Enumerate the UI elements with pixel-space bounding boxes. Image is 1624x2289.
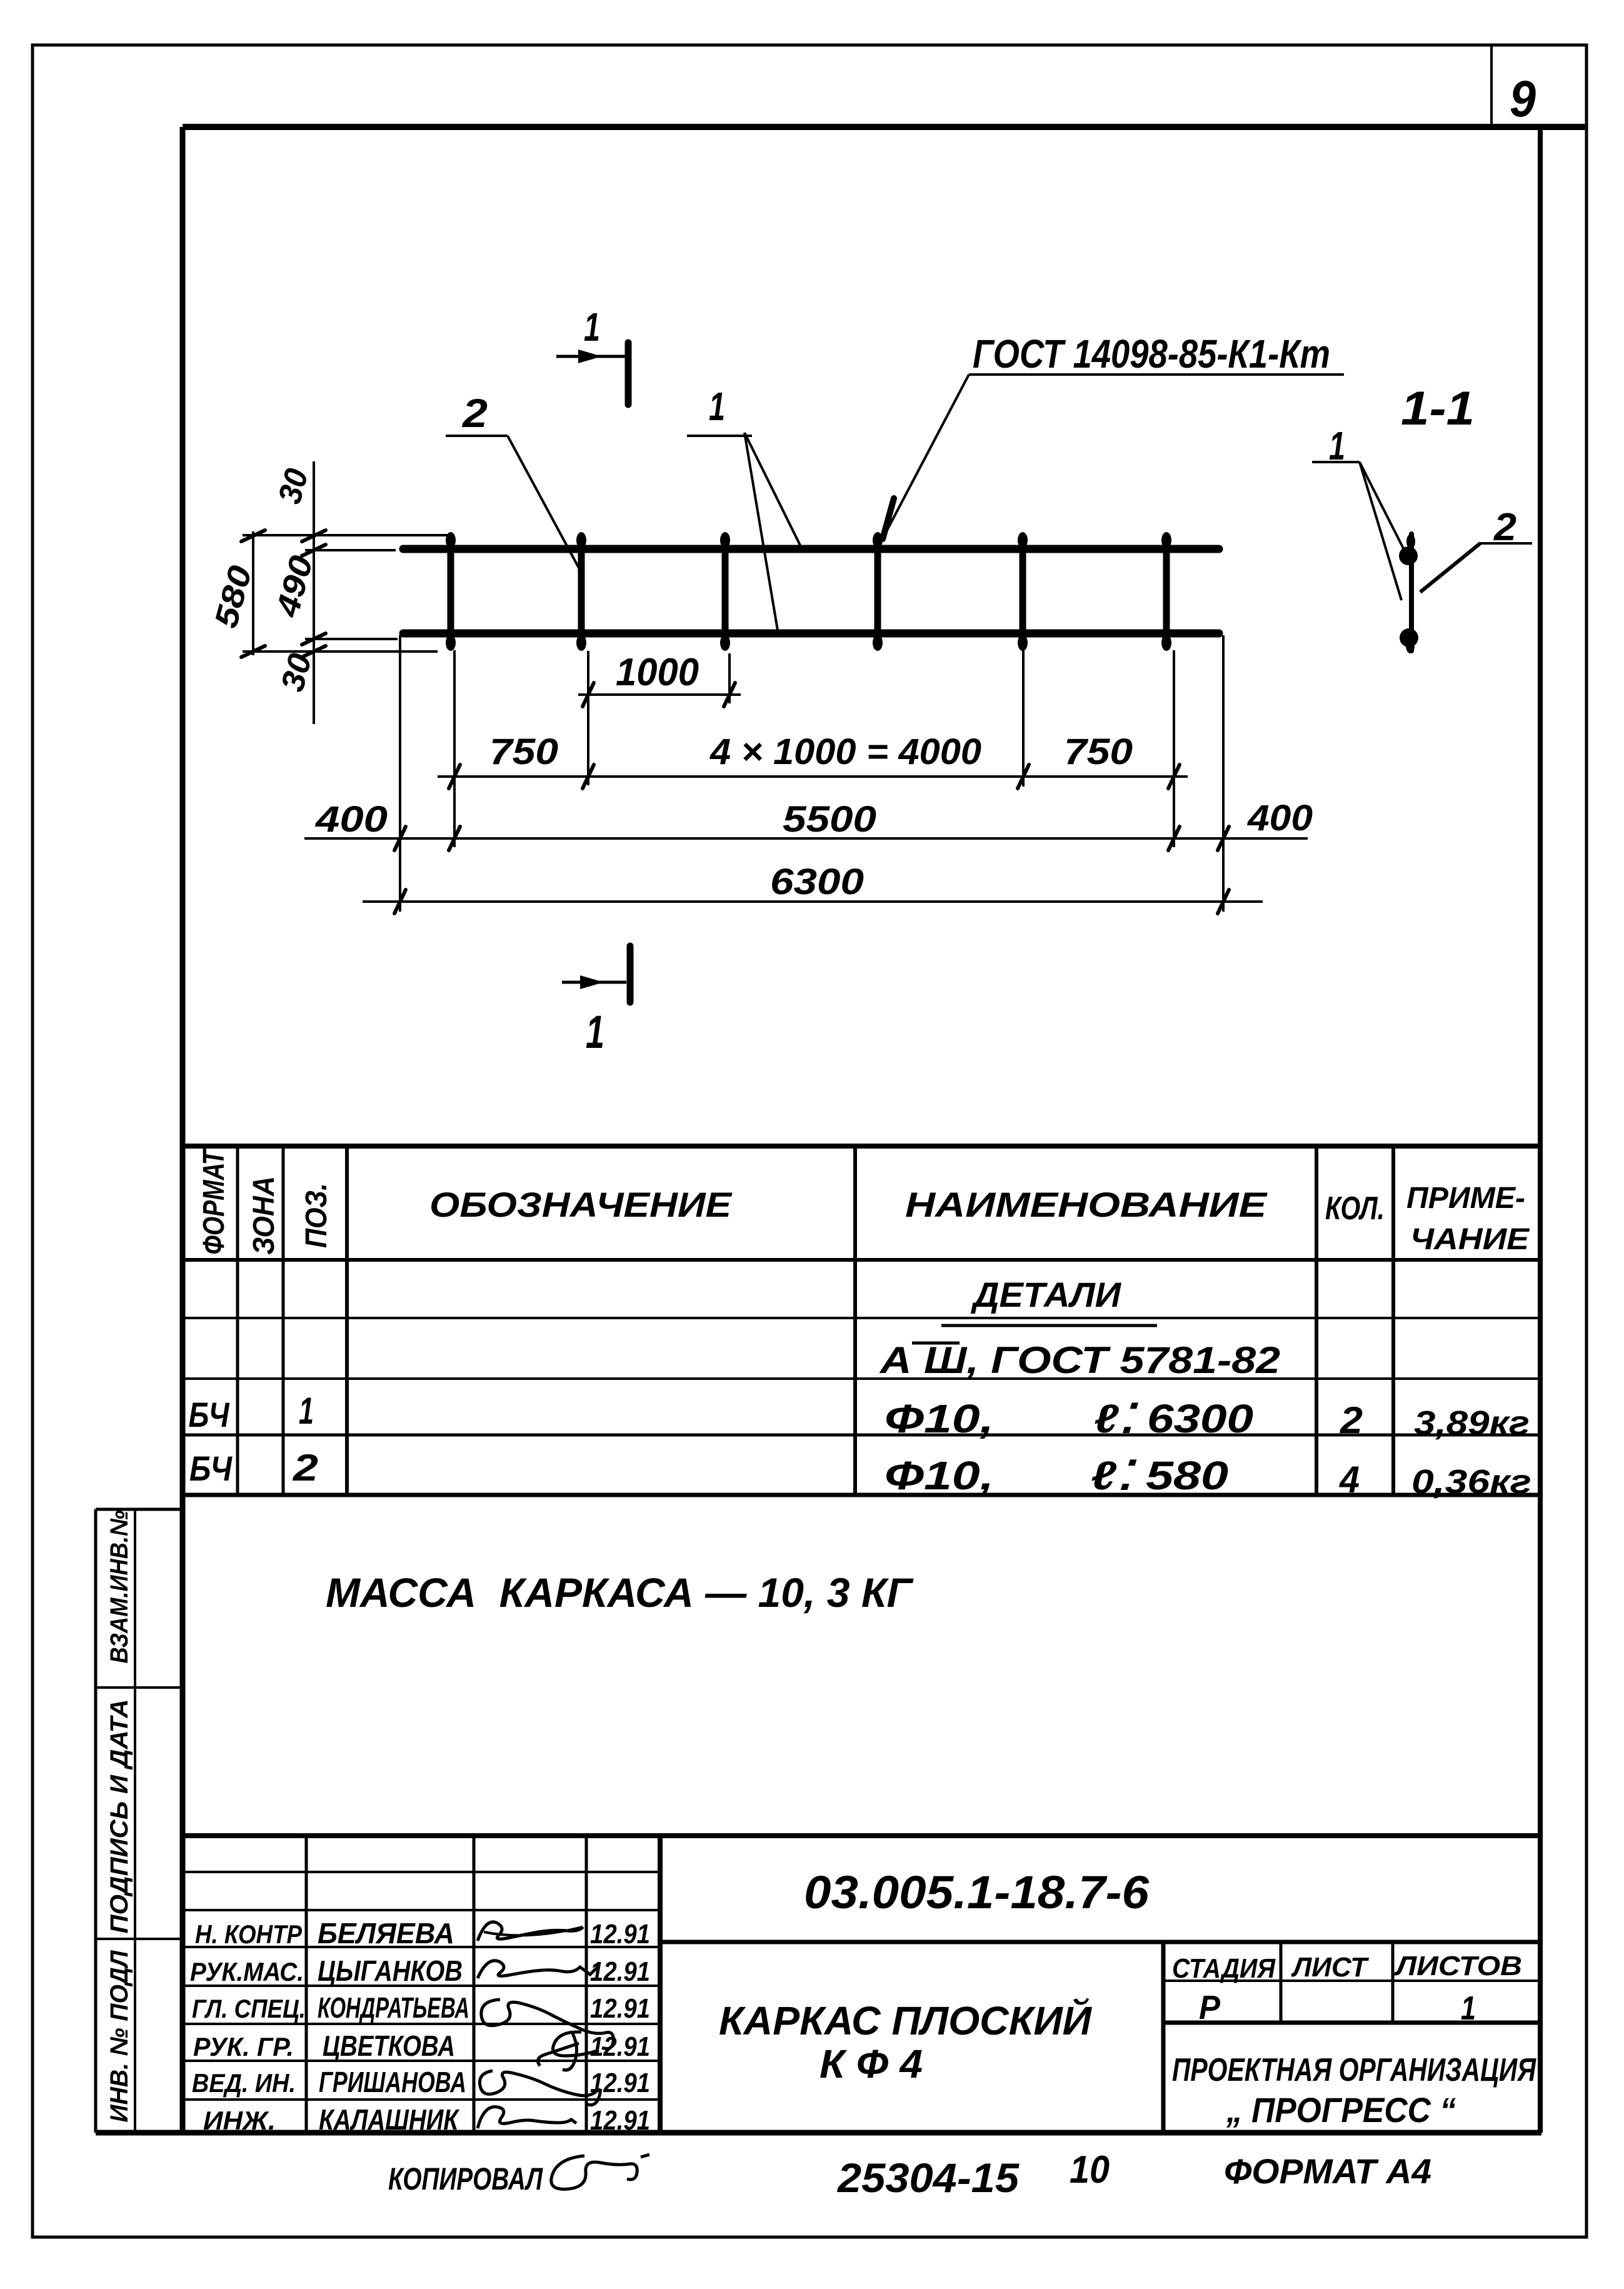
detali underline <box>941 1324 1157 1327</box>
svg-text:25304-15: 25304-15 <box>836 2155 1020 2201</box>
section view rod line <box>1409 534 1414 651</box>
title block top <box>183 1833 1540 1838</box>
svg-text:Н. КОНТР: Н. КОНТР <box>195 1919 303 1949</box>
svg-text:1: 1 <box>586 1006 604 1058</box>
svg-text:2: 2 <box>1340 1399 1363 1441</box>
title row 7 <box>183 2098 660 2101</box>
svg-text:КАЛАШНИК: КАЛАШНИК <box>319 2103 459 2136</box>
signature Tsvetkova <box>538 2032 599 2070</box>
svg-text:ЗОНА: ЗОНА <box>248 1176 281 1255</box>
section label 2 underline <box>1479 542 1532 545</box>
page number box divider <box>1490 45 1493 127</box>
spec table row line 3 <box>183 1434 1540 1437</box>
svg-text:ГЛ. СПЕЦ.: ГЛ. СПЕЦ. <box>192 1994 306 2023</box>
svg-text:12.91: 12.91 <box>590 1993 650 2024</box>
svg-text:1: 1 <box>1461 1990 1476 2027</box>
svg-text:400: 400 <box>315 799 388 840</box>
svg-text:ИНЖ.: ИНЖ. <box>203 2106 276 2135</box>
svg-text:ЦЫГАНКОВ: ЦЫГАНКОВ <box>318 1954 463 1987</box>
extension line top bar level <box>305 549 396 551</box>
signature Kondratyeva <box>481 2000 613 2049</box>
svg-text:ГРИШАНОВА: ГРИШАНОВА <box>319 2066 466 2098</box>
spec col primechanie <box>1391 1146 1395 1495</box>
svg-text:ВЗАМ.ИНВ.№: ВЗАМ.ИНВ.№ <box>106 1510 133 1663</box>
svg-text:750: 750 <box>1064 732 1133 772</box>
extension vertical x1957 (bar right end) <box>1222 635 1225 912</box>
section view bar dot bottom <box>1400 628 1418 647</box>
spec table row line 1 <box>183 1317 1540 1319</box>
svg-text:КОЛ.: КОЛ. <box>1325 1190 1385 1227</box>
svg-text:ПРОЕКТНАЯ ОРГАНИЗАЦИЯ: ПРОЕКТНАЯ ОРГАНИЗАЦИЯ <box>1172 2052 1536 2088</box>
svg-text:3,89кг: 3,89кг <box>1414 1404 1530 1442</box>
svg-text:К Ф 4: К Ф 4 <box>820 2041 923 2086</box>
svg-text:1: 1 <box>709 384 725 429</box>
spec col zona <box>282 1146 285 1495</box>
svg-text:2: 2 <box>293 1447 318 1489</box>
svg-text:„ ПРОГРЕСС “: „ ПРОГРЕСС “ <box>1226 2090 1456 2130</box>
dim 6300 line <box>363 900 1263 903</box>
spec col format <box>236 1146 239 1495</box>
title row 2 <box>183 1909 660 1911</box>
svg-text:ПОДПИСЬ И ДАТА: ПОДПИСЬ И ДАТА <box>106 1699 133 1934</box>
svg-text:12.91: 12.91 <box>590 2105 650 2136</box>
svg-text:КАРКАС ПЛОСКИЙ: КАРКАС ПЛОСКИЙ <box>719 1997 1093 2043</box>
svg-text:ЛИСТ: ЛИСТ <box>1291 1952 1369 1983</box>
svg-text:12.91: 12.91 <box>590 1919 650 1949</box>
svg-text:ВЕД. ИН.: ВЕД. ИН. <box>192 2068 296 2098</box>
extension vertical x640 (bar left end) <box>399 635 401 912</box>
svg-text:1000: 1000 <box>616 651 699 694</box>
svg-text:БЧ: БЧ <box>189 1395 230 1434</box>
svg-text:НАИМЕНОВАНИЕ: НАИМЕНОВАНИЕ <box>905 1185 1268 1224</box>
signature Grishanova <box>479 2071 600 2105</box>
title row 4 <box>183 1985 660 1987</box>
svg-text:СТАДИЯ: СТАДИЯ <box>1172 1953 1276 1984</box>
section view bar dot top <box>1399 546 1418 565</box>
svg-text:1-1: 1-1 <box>1401 382 1475 435</box>
svg-text:5500: 5500 <box>783 799 876 840</box>
title col A <box>305 1836 308 2133</box>
title row 3 <box>183 1946 660 1948</box>
title row 6 <box>183 2060 660 2062</box>
designation box bottom <box>660 1940 1540 1944</box>
svg-text:КОНДРАТЬЕВА: КОНДРАТЬЕВА <box>318 1991 469 2024</box>
svg-text:ПОЗ.: ПОЗ. <box>300 1183 333 1248</box>
section mark 1 top: arrow line <box>556 355 625 358</box>
section label 1 leader a <box>1360 462 1405 551</box>
svg-text:12.91: 12.91 <box>590 1956 650 1987</box>
svg-text:ФОРМАТ: ФОРМАТ <box>198 1149 231 1255</box>
svg-text:ДЕТАЛИ: ДЕТАЛИ <box>971 1275 1122 1314</box>
dim 1000 line <box>578 693 741 696</box>
spec table row line 2 <box>183 1377 1540 1380</box>
extension line rod bottom level <box>243 650 438 653</box>
section label 2 leader <box>1420 543 1480 592</box>
svg-text:Р: Р <box>1199 1989 1221 2026</box>
svg-text:КОПИРОВАЛ: КОПИРОВАЛ <box>388 2161 543 2196</box>
name/stadia divider <box>1161 1942 1166 2133</box>
svg-text:400: 400 <box>1247 798 1313 838</box>
dim chain vertical line (30/490/30) <box>313 461 315 724</box>
cross rod item 2 #2 <box>578 536 585 647</box>
svg-text:6300: 6300 <box>770 862 864 902</box>
kopiroval sig dash <box>641 2155 649 2157</box>
svg-text:БЧ: БЧ <box>189 1449 233 1488</box>
svg-text:1: 1 <box>299 1390 314 1432</box>
svg-text:750: 750 <box>489 732 558 772</box>
section mark 1 top: arrowhead <box>578 350 602 363</box>
extension vertical x727 (rod 1) <box>453 650 456 847</box>
stadia col line <box>1280 1942 1283 2023</box>
dim 5500 line <box>304 837 1308 840</box>
AIII overbar <box>912 1342 960 1345</box>
cross rod item 2 #5 <box>1020 536 1026 647</box>
section mark 1 bottom: arrow line <box>562 981 626 984</box>
extension vertical x1167 (rod 3) <box>728 653 731 703</box>
svg-text:03.005.1-18.7-6: 03.005.1-18.7-6 <box>804 1866 1150 1918</box>
cross rod item 2 #6 <box>1163 536 1170 647</box>
svg-text:ℓ⁚ 6300: ℓ⁚ 6300 <box>1094 1396 1253 1441</box>
title col C <box>585 1836 588 2133</box>
section mark 1 top: bar <box>625 343 632 405</box>
svg-text:ОБОЗНАЧЕНИЕ: ОБОЗНАЧЕНИЕ <box>429 1185 733 1224</box>
cross rod item 2 #3 <box>722 536 729 647</box>
longitudinal bar item 1 (top) <box>403 545 1219 553</box>
extension line rod top level <box>243 534 449 536</box>
title col D (designation box left) <box>658 1836 663 2133</box>
svg-text:9: 9 <box>1510 71 1536 128</box>
svg-text:ЛИСТОВ: ЛИСТОВ <box>1394 1951 1522 1981</box>
svg-text:4: 4 <box>1339 1459 1360 1501</box>
list col line <box>1391 1942 1395 2023</box>
extension vertical x1878 (rod 6) <box>1173 650 1175 847</box>
svg-text:БЕЛЯЕВА: БЕЛЯЕВА <box>318 1917 454 1949</box>
signature Belyaeva <box>478 1922 583 1941</box>
label 1 leader a <box>744 433 778 630</box>
dim 580 line <box>252 531 254 655</box>
extension vertical x1637 (rod 5) <box>1022 650 1025 787</box>
extension line bottom bar level <box>305 638 398 640</box>
extension vertical x941 (rod 2) <box>587 651 589 785</box>
longitudinal bar item 1 (bottom) <box>403 630 1219 638</box>
label 2 leader <box>508 436 580 570</box>
label 2 underline <box>446 435 508 437</box>
stadia values bottom <box>1163 2021 1540 2025</box>
svg-text:ФОРМАТ А4: ФОРМАТ А4 <box>1224 2151 1431 2191</box>
svg-text:ПРИМЕ-: ПРИМЕ- <box>1406 1182 1525 1215</box>
svg-text:0,36кг: 0,36кг <box>1411 1463 1531 1501</box>
svg-text:Ф10,: Ф10, <box>885 1396 994 1441</box>
svg-text:ЦВЕТКОВА: ЦВЕТКОВА <box>323 2030 455 2062</box>
svg-text:Ф10,: Ф10, <box>885 1453 994 1498</box>
svg-text:12.91: 12.91 <box>590 2031 650 2062</box>
section mark 1 bottom: arrowhead <box>580 975 604 989</box>
svg-text:ℓ⁚ 580: ℓ⁚ 580 <box>1091 1453 1228 1498</box>
svg-text:ИНВ. № ПОДЛ: ИНВ. № ПОДЛ <box>106 1949 133 2122</box>
cross rod item 2 #1 <box>448 536 454 647</box>
weld leader line <box>886 375 969 531</box>
kopiroval signature <box>551 2156 637 2189</box>
signature Kalashnik <box>478 2107 576 2128</box>
cross rod item 2 #4 <box>875 536 881 647</box>
spec table bottom <box>183 1493 1540 1497</box>
svg-text:А Ш, ГОСТ 5781-82: А Ш, ГОСТ 5781-82 <box>879 1339 1280 1381</box>
section label 1 leader b <box>1360 462 1401 600</box>
spec col kol <box>1315 1146 1318 1495</box>
label 1 underline <box>687 435 752 437</box>
section label 1 underline <box>1312 461 1360 463</box>
signature Tsygankov <box>478 1961 599 1978</box>
title row 5 <box>183 2023 660 2025</box>
svg-text:1: 1 <box>584 304 600 350</box>
label 1 leader b <box>744 433 801 546</box>
dim chain line 750/4x1000/750 <box>438 775 1188 778</box>
spec col oboznachenie/naimenovanie <box>853 1146 857 1495</box>
spec table outer top <box>183 1144 1540 1149</box>
svg-text:РУК. ГР.: РУК. ГР. <box>193 2032 294 2061</box>
svg-text:ЧАНИЕ: ЧАНИЕ <box>1410 1223 1530 1256</box>
svg-text:2: 2 <box>462 391 488 436</box>
spec col poz <box>345 1146 349 1495</box>
stadia header underline <box>1163 1980 1540 1982</box>
main drawing frame <box>183 124 1586 130</box>
svg-text:ГОСТ 14098-85-К1-Кт: ГОСТ 14098-85-К1-Кт <box>973 331 1330 376</box>
title row 1 <box>183 1871 660 1873</box>
section mark 1 bottom: bar <box>627 946 634 1002</box>
title col B <box>473 1836 476 2133</box>
spec table header bottom <box>183 1258 1540 1262</box>
svg-text:4 × 1000 = 4000: 4 × 1000 = 4000 <box>709 732 981 772</box>
svg-text:РУК.МАС.: РУК.МАС. <box>190 1957 304 1986</box>
svg-text:МАССА КАРКАСА — 10, 3 КГ: МАССА КАРКАСА — 10, 3 КГ <box>326 1569 913 1616</box>
weld leader underline <box>969 373 1344 376</box>
weld arrow stroke <box>883 498 894 539</box>
svg-text:10: 10 <box>1070 2148 1110 2191</box>
left margin strip boxes <box>94 1509 98 2133</box>
